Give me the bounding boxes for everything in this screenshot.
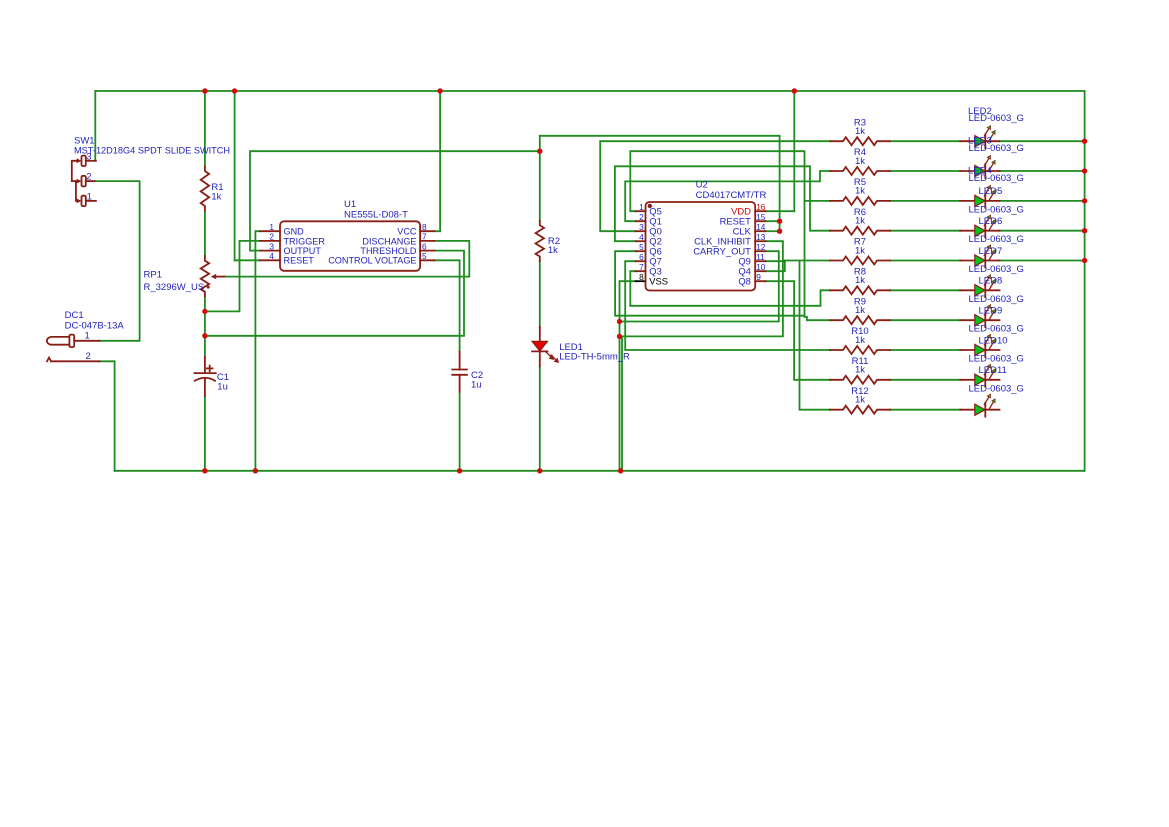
svg-text:6: 6 — [422, 241, 427, 251]
svg-text:4: 4 — [639, 232, 644, 242]
svg-text:1k: 1k — [855, 156, 865, 167]
svg-text:DISCHANGE: DISCHANGE — [362, 236, 416, 246]
svg-text:4: 4 — [269, 251, 274, 261]
svg-text:9: 9 — [756, 272, 761, 282]
svg-text:2: 2 — [269, 232, 274, 242]
svg-text:1k: 1k — [855, 275, 865, 286]
svg-text:1k: 1k — [855, 305, 865, 316]
svg-text:LED7: LED7 — [979, 246, 1003, 257]
svg-text:1u: 1u — [217, 382, 228, 393]
svg-text:VCC: VCC — [397, 227, 417, 237]
svg-text:LED-0603_G: LED-0603_G — [969, 234, 1024, 245]
svg-text:LED-0603_G: LED-0603_G — [969, 204, 1024, 215]
svg-text:VSS: VSS — [649, 276, 668, 287]
svg-text:1k: 1k — [855, 395, 865, 406]
svg-text:LED-0603_G: LED-0603_G — [969, 143, 1024, 154]
svg-text:OUTPUT: OUTPUT — [284, 246, 322, 256]
svg-text:3: 3 — [269, 241, 274, 251]
svg-text:RP1: RP1 — [144, 270, 162, 281]
svg-text:1: 1 — [85, 330, 90, 341]
svg-text:LED-0603_G: LED-0603_G — [969, 173, 1024, 184]
svg-text:LED-0603_G: LED-0603_G — [969, 113, 1024, 124]
svg-text:1k: 1k — [855, 365, 865, 376]
svg-text:7: 7 — [422, 232, 427, 242]
svg-text:1: 1 — [269, 222, 274, 232]
svg-text:RESET: RESET — [284, 256, 315, 266]
svg-text:1k: 1k — [855, 245, 865, 256]
svg-text:6: 6 — [639, 252, 644, 262]
svg-text:1k: 1k — [855, 126, 865, 137]
svg-text:LED-0603_G: LED-0603_G — [969, 264, 1024, 275]
svg-text:CD4017CMT/TR: CD4017CMT/TR — [696, 190, 767, 201]
svg-text:5: 5 — [422, 251, 427, 261]
svg-text:12: 12 — [756, 242, 766, 252]
svg-text:1u: 1u — [471, 380, 482, 391]
svg-text:8: 8 — [639, 272, 644, 282]
svg-text:3: 3 — [639, 222, 644, 232]
svg-text:THRESHOLD: THRESHOLD — [360, 246, 417, 256]
svg-text:LED10: LED10 — [979, 335, 1008, 346]
svg-text:1k: 1k — [855, 216, 865, 227]
svg-text:NE555L-D08-T: NE555L-D08-T — [344, 209, 408, 220]
svg-text:1k: 1k — [211, 192, 221, 203]
svg-text:13: 13 — [756, 232, 766, 242]
svg-text:LED6: LED6 — [979, 216, 1003, 227]
svg-text:TRIGGER: TRIGGER — [284, 236, 326, 246]
svg-text:10: 10 — [756, 262, 766, 272]
svg-text:LED5: LED5 — [979, 186, 1003, 197]
svg-text:16: 16 — [756, 202, 766, 212]
svg-text:2: 2 — [86, 351, 91, 362]
svg-text:GND: GND — [284, 227, 305, 237]
svg-text:2: 2 — [639, 212, 644, 222]
svg-text:DC1: DC1 — [65, 310, 84, 321]
svg-text:LED-0603_G: LED-0603_G — [969, 383, 1024, 394]
svg-text:R_3296W_US: R_3296W_US — [144, 282, 205, 293]
svg-text:LED-0603_G: LED-0603_G — [969, 354, 1024, 365]
svg-text:LED-TH-5mm_R: LED-TH-5mm_R — [559, 352, 630, 363]
svg-text:LED9: LED9 — [979, 306, 1003, 317]
svg-text:LED-0603_G: LED-0603_G — [969, 324, 1024, 335]
svg-text:5: 5 — [639, 242, 644, 252]
svg-text:MST-12D18G4 SPDT SLIDE SWITCH: MST-12D18G4 SPDT SLIDE SWITCH — [74, 146, 230, 156]
svg-text:1k: 1k — [855, 335, 865, 346]
svg-text:3: 3 — [86, 151, 91, 162]
svg-text:1: 1 — [639, 202, 644, 212]
svg-text:8: 8 — [422, 222, 427, 232]
svg-text:LED8: LED8 — [979, 276, 1003, 287]
svg-text:LED-0603_G: LED-0603_G — [969, 294, 1024, 305]
svg-text:1k: 1k — [855, 186, 865, 197]
svg-text:15: 15 — [756, 212, 766, 222]
svg-text:1k: 1k — [548, 245, 558, 256]
svg-text:LED11: LED11 — [979, 365, 1007, 376]
svg-text:14: 14 — [756, 222, 766, 232]
svg-text:1: 1 — [87, 191, 92, 202]
svg-text:Q8: Q8 — [738, 276, 751, 287]
svg-text:7: 7 — [639, 262, 644, 272]
svg-text:11: 11 — [756, 252, 765, 262]
svg-text:DC-047B-13A: DC-047B-13A — [65, 321, 125, 332]
svg-text:2: 2 — [86, 172, 91, 183]
svg-text:CONTROL VOLTAGE: CONTROL VOLTAGE — [328, 256, 416, 266]
